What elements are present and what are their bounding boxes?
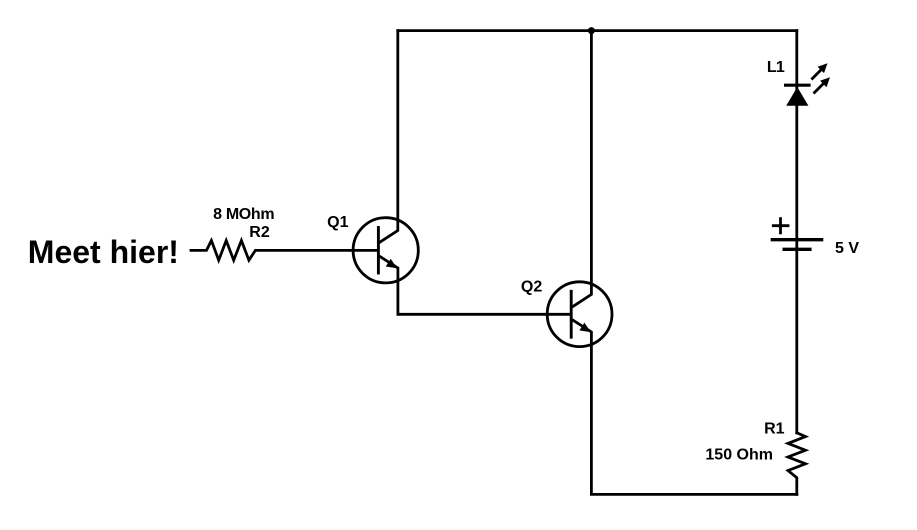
svg-text:R2: R2 (249, 224, 270, 241)
svg-text:Q1: Q1 (327, 214, 348, 231)
svg-text:150 Ohm: 150 Ohm (705, 447, 773, 464)
svg-text:L1: L1 (767, 59, 785, 76)
svg-text:R1: R1 (764, 420, 785, 437)
svg-text:5 V: 5 V (835, 240, 859, 257)
svg-text:8 MOhm: 8 MOhm (213, 206, 274, 223)
svg-text:Q2: Q2 (521, 278, 542, 295)
svg-text:Meet hier!: Meet hier! (28, 234, 179, 270)
